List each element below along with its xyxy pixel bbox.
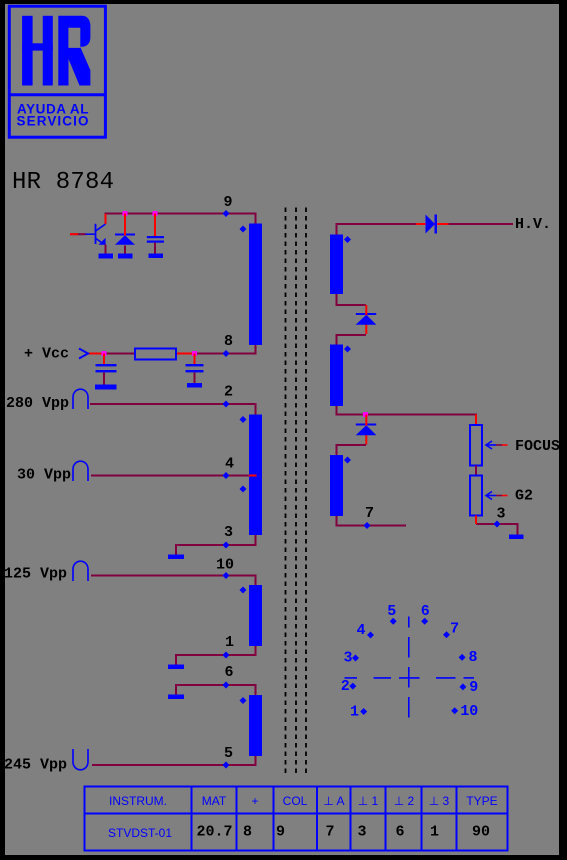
svg-text:⊥ 2: ⊥ 2 [394, 794, 415, 808]
pin 1 diamond [223, 652, 230, 659]
wire pin3b net [476, 524, 518, 535]
svg-text:⊥ 3: ⊥ 3 [429, 794, 450, 808]
phasing diamond W7 [344, 457, 351, 464]
wire HV net [337, 224, 514, 235]
wire W5-D3 [337, 294, 367, 305]
pin 2 diamond [223, 401, 230, 408]
winding W6 [330, 345, 343, 407]
winding W3 [249, 585, 262, 646]
svg-text:4: 4 [225, 456, 234, 473]
svg-text:MAT: MAT [202, 794, 227, 808]
winding W5 [330, 235, 343, 295]
svg-text:6: 6 [395, 824, 404, 841]
junction (focus net) [363, 412, 368, 417]
node 1 [360, 708, 367, 715]
svg-text:90: 90 [472, 824, 490, 841]
pulse symbol 30 [73, 461, 88, 481]
phasing diamond W1 [240, 226, 247, 233]
pin 6 diamond [223, 682, 230, 689]
resistor R2 FOCUS [470, 425, 482, 466]
capacitor C2 [96, 354, 117, 386]
wire pin10 net [91, 576, 256, 586]
winding W1 [249, 224, 262, 346]
pin4 tap red [249, 475, 257, 477]
red segment below G2 [475, 516, 477, 525]
winding W4 [249, 695, 262, 756]
node 7 [443, 631, 450, 638]
svg-text:HR 8784: HR 8784 [12, 169, 114, 196]
G2 wire [496, 495, 502, 497]
svg-text:5: 5 [224, 745, 233, 762]
node 10 [451, 707, 458, 714]
pulse symbol 280 [73, 389, 88, 409]
ground (emitter) [99, 254, 114, 259]
phasing diamond W6 [344, 346, 351, 353]
junction (cap) [153, 211, 158, 216]
capacitor C3 [186, 354, 204, 384]
ground (pin3b) [509, 535, 524, 540]
svg-text:2: 2 [224, 384, 233, 401]
svg-text:9: 9 [276, 824, 285, 841]
pulse symbol 245 (inverted) [73, 749, 88, 770]
wire pin9 net [106, 214, 256, 225]
HR logo box [9, 6, 105, 137]
collector red segment [105, 214, 107, 224]
svg-text:3: 3 [343, 650, 352, 667]
svg-text:7: 7 [365, 505, 374, 522]
node 9 [459, 683, 466, 690]
pinout diagram cross [345, 617, 475, 718]
winding W7 [330, 455, 343, 516]
node 8 [459, 654, 466, 661]
svg-text:8: 8 [224, 333, 233, 350]
svg-text:6: 6 [224, 664, 233, 681]
svg-text:125 Vpp: 125 Vpp [4, 566, 67, 583]
svg-text:1: 1 [430, 824, 439, 841]
svg-text:2: 2 [341, 678, 350, 695]
resistor R3 G2 [470, 476, 482, 516]
wire R2-R3 [475, 466, 477, 476]
svg-text:FOCUS: FOCUS [515, 438, 560, 455]
ground (pin3) [168, 555, 184, 560]
svg-text:1: 1 [350, 704, 359, 721]
diode D3 [356, 305, 377, 334]
diode D1 damper [115, 214, 135, 255]
svg-text:9: 9 [469, 679, 478, 696]
core dashed lines [286, 208, 307, 774]
red segments pin8 [88, 353, 104, 355]
node 4 [367, 632, 374, 639]
svg-text:⊥ 1: ⊥ 1 [358, 794, 379, 808]
wire pin2 net [90, 404, 256, 415]
node 2 [349, 683, 356, 690]
svg-text:3: 3 [357, 824, 366, 841]
node 3 [352, 655, 359, 662]
svg-text:3: 3 [224, 524, 233, 541]
FOCUS wire [496, 444, 502, 446]
data table [85, 787, 508, 851]
svg-text:SERVICIO: SERVICIO [17, 113, 89, 128]
pin 7 diamond [364, 522, 371, 529]
wire pin8 net [88, 345, 256, 354]
svg-text:5: 5 [387, 603, 396, 620]
svg-text:10: 10 [460, 703, 478, 720]
svg-text:COL: COL [283, 794, 308, 808]
junction (diode) [123, 211, 128, 216]
pin 9 diamond [223, 210, 230, 217]
node 5 [390, 618, 397, 625]
wire pin7 net [337, 516, 407, 526]
ground (C3) [187, 383, 202, 388]
wire pin3 net [176, 535, 256, 555]
svg-text:245 Vpp: 245 Vpp [4, 757, 67, 774]
pin 4 diamond [223, 472, 230, 479]
svg-text:10: 10 [216, 557, 234, 574]
node 6 [421, 618, 428, 625]
svg-text:1: 1 [225, 634, 234, 651]
ground (pin6) [168, 695, 184, 700]
phasing diamond W2b [240, 486, 247, 493]
phasing diamond W5 [344, 236, 351, 243]
ground (C2) [95, 385, 117, 390]
pin 3b diamond [494, 521, 501, 528]
svg-text:8: 8 [243, 824, 252, 841]
svg-text:9: 9 [223, 194, 232, 211]
svg-text:STVDST-01: STVDST-01 [108, 826, 172, 840]
svg-text:4: 4 [356, 622, 365, 639]
wire pin6 net [176, 685, 256, 695]
ground (cap) [149, 254, 164, 259]
ground (diode) [118, 254, 133, 259]
svg-text:TYPE: TYPE [466, 794, 497, 808]
pin 10 diamond [223, 572, 230, 579]
pin 5 diamond [223, 762, 230, 769]
svg-text:+ Vcc: + Vcc [24, 346, 69, 363]
junction (cap A) [102, 351, 107, 356]
resistor R1 [135, 349, 176, 360]
ground (pin1) [168, 665, 184, 670]
HR logo letters [22, 16, 90, 86]
svg-text:⊥ A: ⊥ A [323, 794, 344, 808]
pin 8 diamond [223, 350, 230, 357]
svg-text:INSTRUM.: INSTRUM. [109, 794, 167, 808]
Vcc arrow [79, 349, 88, 359]
junction (cap B) [192, 351, 197, 356]
phasing diamond W4 [240, 697, 247, 704]
pin 3 diamond [223, 542, 230, 549]
svg-text:20.7: 20.7 [196, 824, 232, 841]
phasing diamond W2a [240, 416, 247, 423]
focus feed red [475, 415, 477, 426]
phasing diamond W3 [240, 587, 247, 594]
svg-text:8: 8 [468, 649, 477, 666]
wire W6 bottom net [337, 406, 477, 425]
svg-text:H.V.: H.V. [515, 216, 551, 233]
pinout pins [341, 603, 479, 721]
G2 arrow [486, 492, 496, 500]
wire pin1 net [176, 646, 256, 665]
diode D4 [356, 415, 377, 445]
wire D4-W7 [337, 445, 367, 455]
diode D2 HV [426, 215, 436, 234]
transistor Q1 [70, 224, 106, 254]
svg-text:7: 7 [325, 824, 334, 841]
winding W2 [249, 415, 262, 536]
svg-text:G2: G2 [515, 488, 533, 505]
svg-text:6: 6 [421, 603, 430, 620]
wire pin5 net [92, 756, 256, 765]
table headers [109, 794, 498, 808]
wire pin4 net [91, 475, 249, 477]
svg-text:3: 3 [496, 506, 505, 523]
FOCUS arrow [486, 441, 496, 449]
capacitor C1 [147, 214, 164, 255]
HV red segments [416, 223, 426, 225]
pulse symbol 125 [73, 561, 88, 581]
svg-text:280 Vpp: 280 Vpp [6, 395, 69, 412]
svg-text:30 Vpp: 30 Vpp [17, 467, 71, 484]
svg-text:7: 7 [450, 620, 459, 637]
svg-text:+: + [251, 794, 258, 808]
wire D3-W6 [337, 335, 367, 345]
